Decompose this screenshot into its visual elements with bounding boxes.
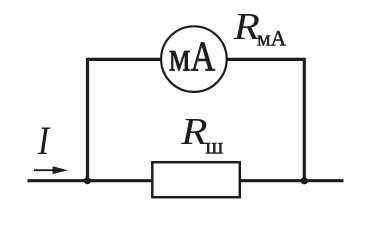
svg-text:R: R	[180, 110, 208, 152]
svg-text:мА: мА	[257, 25, 287, 50]
svg-text:I: I	[37, 120, 51, 164]
svg-text:R: R	[233, 5, 261, 47]
svg-text:ш: ш	[205, 134, 223, 160]
svg-text:мА: мА	[169, 35, 216, 81]
